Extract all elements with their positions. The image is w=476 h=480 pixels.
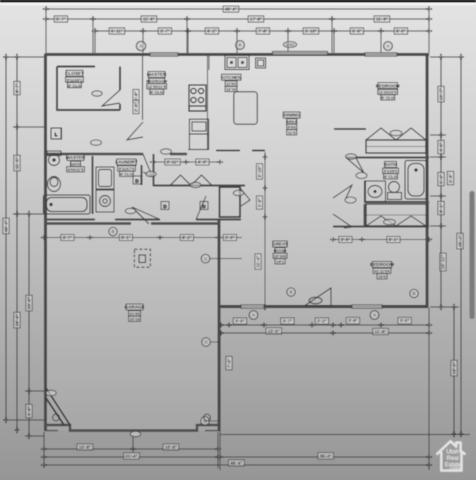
svg-text:AREA: AREA [286, 119, 297, 124]
east bath walls [333, 158, 429, 227]
room label CLOSET [65, 70, 84, 88]
label 46&#8217;-4&#8221; [3, 218, 9, 234]
svg-text:9’-1”: 9’-1” [121, 235, 131, 240]
east bath vanity [365, 181, 386, 202]
dimension ticks [42, 17, 432, 22]
svg-text:5’-6”: 5’-6” [27, 406, 32, 416]
master bath door swing [143, 154, 152, 176]
label 6&#8217;-2&#8221; [205, 28, 218, 34]
svg-text:19’-5”: 19’-5” [452, 362, 457, 374]
hall closet door swing [240, 188, 250, 206]
window east bedroom [365, 53, 397, 56]
svg-text:3’-7”: 3’-7” [63, 235, 73, 240]
dimension ticks [40, 455, 221, 460]
east closet door oval [390, 130, 402, 135]
label 11&#8217;-9&#8221; [374, 16, 390, 22]
svg-text:3’-0”: 3’-0” [400, 318, 410, 323]
svg-text:3’-7”: 3’-7” [283, 319, 293, 324]
svg-text:D: D [135, 179, 138, 184]
overall width dimension line [46, 8, 429, 10]
svg-text:5’-8”: 5’-8” [448, 173, 453, 183]
dimension ticks [4, 53, 9, 423]
label 5&#8217;-6&#8221; [26, 404, 32, 417]
right patio dim line [453, 307, 455, 434]
left inner dimension line [16, 57, 18, 430]
svg-text:7’-0”: 7’-0” [227, 358, 232, 368]
washer and dryer [96, 167, 114, 212]
top black bar [0, 0, 476, 3]
dimension ticks [217, 323, 432, 328]
label 3&#8217;-9&#8221; [346, 318, 359, 324]
svg-text:B: B [289, 290, 292, 295]
EN box [51, 128, 61, 139]
svg-text:11’-5”: 11’-5” [15, 157, 20, 169]
svg-text:11’-9”: 11’-9” [376, 17, 388, 22]
label 2&#8217;-8&#8221; [133, 100, 139, 113]
dimension ticks [42, 7, 432, 12]
window great room bottom [241, 305, 264, 308]
svg-text:10’0: 10’0 [378, 274, 387, 279]
svg-text:B: B [238, 43, 241, 48]
room label KITCHEN [221, 74, 242, 92]
label 5&#8217;-8&#8221; [447, 171, 453, 184]
svg-text:12’5X11’5: 12’5X11’5 [148, 84, 167, 89]
bedroom2 dimension row [333, 239, 429, 241]
svg-text:5’-7”: 5’-7” [56, 17, 66, 22]
svg-text:3’-7”: 3’-7” [160, 29, 170, 34]
room label DINING [283, 112, 300, 135]
schedule symbol A [370, 311, 379, 320]
kitchen sink [225, 56, 249, 70]
room label BEDROOM east [376, 83, 400, 101]
svg-text:8’ CLG: 8’ CLG [120, 172, 133, 177]
svg-text:D: D [163, 204, 166, 209]
svg-text:BEDROOM: BEDROOM [376, 83, 400, 88]
svg-text:6’-2”: 6’-2” [207, 29, 217, 34]
bedroom2 door swing [333, 214, 352, 228]
svg-text:6’-0”: 6’-0” [396, 29, 406, 34]
label 3&#8217;-8&#8221; [339, 236, 352, 242]
master bath tub [44, 195, 91, 214]
great room entry door swing [196, 196, 206, 220]
svg-text:21’-4”: 21’-4” [125, 454, 137, 459]
label 11&#8217;-5&#8221; [14, 155, 20, 171]
outer left wall [44, 54, 47, 431]
window bedroom2 bottom [352, 305, 382, 308]
svg-text:3’-8”: 3’-8” [341, 237, 351, 242]
schedule symbol A [249, 311, 258, 320]
svg-text:8’-1”: 8’-1” [439, 203, 444, 213]
label 1&#8217;-6&#8221; [256, 196, 262, 209]
svg-text:35’-2”: 35’-2” [320, 453, 332, 458]
svg-text:#2 11’0X: #2 11’0X [374, 269, 390, 274]
label 8&#8217;-1&#8221; [438, 201, 444, 214]
right extension lines [430, 57, 464, 307]
svg-text:22’10: 22’10 [130, 317, 141, 322]
room label MASTER BATH [66, 155, 86, 173]
label 21&#8217;-4&#8221; [124, 453, 140, 459]
svg-text:LAUNDRY: LAUNDRY [115, 160, 137, 165]
svg-text:10’-7”: 10’-7” [439, 88, 444, 100]
svg-text:8’-2”: 8’-2” [182, 235, 192, 240]
bottom extension lines [44, 308, 470, 470]
svg-text:2’-8”: 2’-8” [134, 102, 139, 112]
svg-text:10’-11”: 10’-11” [441, 255, 446, 269]
dimension ticks [149, 160, 223, 165]
wall [332, 214, 334, 307]
schedule symbol G [201, 254, 210, 263]
svg-text:14’1: 14’1 [276, 259, 285, 264]
master bath toilet [47, 151, 61, 166]
label 3&#8217;-0&#8221; [398, 318, 411, 324]
overall width dimension line bottom [44, 464, 429, 466]
bedroom2 closet [366, 204, 428, 226]
label 2&#8217;-0&#8221; [223, 234, 236, 240]
outer right wall [426, 54, 429, 308]
label 4&#8217;-3&#8221; [196, 159, 209, 165]
svg-text:8’ CLG: 8’ CLG [68, 83, 81, 88]
svg-text:6’-1”: 6’-1” [389, 237, 399, 242]
left extension lines [3, 57, 44, 436]
svg-text:5’11X7’0: 5’11X7’0 [119, 166, 136, 171]
svg-text:5’-11”: 5’-11” [111, 29, 123, 34]
east bedroom closet doors [366, 128, 426, 140]
svg-text:21’4X: 21’4X [129, 311, 140, 316]
third row dimension line [95, 30, 429, 32]
master suite dividing wall [44, 153, 187, 155]
dimension ticks [40, 463, 432, 468]
right overall dim line [460, 57, 462, 434]
master bedroom door swing [127, 122, 143, 140]
svg-text:4’-0”: 4’-0” [439, 142, 444, 152]
label 8&#8217;-7&#8221; [14, 81, 20, 94]
garage door dimension line [44, 448, 218, 450]
svg-text:2’-0”: 2’-0” [225, 235, 235, 240]
svg-text:L: L [55, 132, 58, 137]
garage entry door swing [132, 207, 160, 224]
dimension ticks [452, 303, 457, 437]
dimension ticks [329, 237, 432, 242]
svg-text:3’-10”: 3’-10” [305, 29, 317, 34]
svg-text:10’-8”: 10’-8” [165, 445, 177, 450]
svg-text:9050: 9050 [286, 43, 294, 47]
svg-text:MASTER: MASTER [147, 72, 167, 77]
garage post circles [53, 414, 211, 421]
label 3&#8217;-7&#8221; [281, 318, 294, 324]
second row below great room [221, 332, 429, 334]
label 10&#8217;-7&#8221; [438, 86, 444, 102]
garage top dimension row [44, 237, 242, 239]
svg-text:5’-4”: 5’-4” [439, 174, 444, 184]
svg-text:3’-9”: 3’-9” [348, 318, 358, 323]
row below great room [221, 324, 429, 326]
dimension ticks [217, 331, 432, 336]
hall closet door oval [233, 190, 243, 195]
svg-text:11’-9”: 11’-9” [375, 329, 387, 334]
shower niche box [51, 128, 62, 139]
svg-text:3’-0”: 3’-0” [235, 319, 245, 324]
svg-text:17’-8”: 17’-8” [250, 17, 262, 22]
attic access dashed box [134, 249, 150, 267]
svg-text:11’6X: 11’6X [226, 81, 237, 86]
schedule symbol G [201, 417, 210, 426]
svg-text:.com: .com [448, 466, 460, 472]
stove [189, 85, 206, 111]
patio width dimension line [220, 456, 429, 458]
great room vertical dim line [264, 152, 266, 307]
svg-text:3’-10”: 3’-10” [257, 165, 262, 177]
room label GARAGE [125, 304, 145, 322]
overall height dimension line left [5, 57, 7, 420]
label 6&#8217;-1&#8221; [387, 236, 400, 242]
label 19&#8217;-5&#8221; [451, 360, 457, 376]
svg-text:5’-9”: 5’-9” [352, 29, 362, 34]
kitchen counters [188, 56, 209, 150]
svg-text:8’ CLG: 8’ CLG [381, 95, 394, 100]
bedroom2 door oval [345, 197, 356, 203]
svg-text:8’ CLG: 8’ CLG [150, 90, 163, 95]
label 6&#8217;-0&#8221; [394, 28, 407, 34]
label 13&#8217;-5&#8221; [266, 328, 282, 334]
dimension ticks [439, 53, 444, 310]
D box 2 [200, 202, 208, 210]
svg-text:CLOSET: CLOSET [65, 71, 84, 76]
svg-text:B: B [412, 291, 415, 296]
label 46&#8217;-4&#8221; [229, 460, 245, 466]
right dim line inner [440, 57, 442, 307]
hall2 door oval [190, 182, 201, 187]
garage entry door oval [125, 208, 135, 213]
top extension lines [46, 6, 429, 53]
svg-text:46’-4”: 46’-4” [225, 7, 237, 12]
east bath toilet [388, 182, 402, 200]
bedroom2 closet doors [366, 216, 426, 226]
wall [332, 54, 334, 198]
east bedroom closet shelf [334, 129, 426, 153]
label 17&#8217;-8&#8221; [248, 16, 264, 22]
room label GREAT ROOM [272, 241, 288, 264]
master bath and laundry walls [44, 154, 245, 220]
svg-text:8’0X11’5: 8’0X11’5 [68, 167, 85, 172]
label 46&#8217;-4&#8221; [223, 6, 239, 12]
label 8&#8217;-2&#8221; [180, 234, 193, 240]
building footprint light overlay [46, 55, 427, 430]
label 4&#8217;-0&#8221; [438, 140, 444, 153]
window dining [273, 52, 328, 55]
schedule symbol B [236, 41, 245, 50]
master bath sink [48, 177, 61, 192]
schedule symbol B [410, 289, 418, 297]
svg-text:4’-3”: 4’-3” [198, 160, 208, 165]
dimension ticks [40, 447, 221, 452]
label 5&#8217;-4&#8221; [438, 172, 444, 185]
svg-text:5’11X9’1: 5’11X9’1 [67, 77, 84, 82]
window master bedroom [150, 53, 178, 56]
label 9&#8217;-1&#8221; [119, 234, 132, 240]
east bedroom door oval [346, 154, 357, 159]
room label LAUNDRY [115, 159, 137, 177]
G symbol leader line 2 [210, 341, 220, 343]
east bath door swing [333, 185, 352, 198]
room label BEDROOM 2 [370, 262, 394, 280]
dishwasher [256, 58, 266, 68]
label 26&#8217;-6&#8221; [14, 312, 20, 328]
wall [240, 150, 242, 188]
svg-text:11’-6”: 11’-6” [143, 17, 155, 22]
svg-text:26’-6”: 26’-6” [15, 314, 20, 326]
label 35&#8217;-2&#8221; [318, 453, 334, 459]
laundry double doors [170, 175, 212, 186]
label 3&#8217;-7&#8221; [61, 234, 74, 240]
label 3&#8217;-11&#8221; [165, 159, 181, 165]
laundry door oval [146, 171, 156, 176]
bedroom2 closet door oval [384, 219, 396, 224]
left garage dimension line [28, 214, 30, 436]
closet room walls [57, 67, 120, 111]
svg-text:7’-8”: 7’-8” [258, 29, 268, 34]
label 5&#8217;-9&#8221; [350, 28, 363, 34]
garage side door oval [46, 390, 56, 396]
svg-text:46’-4”: 46’-4” [230, 461, 242, 466]
svg-text:13’-5”: 13’-5” [268, 328, 280, 333]
hall closet walls [216, 151, 265, 218]
fireplace [305, 288, 331, 306]
svg-text:BATH: BATH [70, 162, 81, 167]
svg-text:GREAT: GREAT [272, 242, 288, 247]
dimension ticks [459, 53, 464, 437]
svg-text:46’-4”: 46’-4” [4, 220, 9, 232]
hall door oval [161, 149, 172, 154]
svg-text:BATH: BATH [384, 162, 397, 167]
svg-text:B: B [111, 229, 114, 234]
G symbol leader line [210, 258, 242, 260]
wall [186, 54, 188, 150]
pantry cabinet [189, 119, 208, 149]
dimension ticks [263, 153, 268, 310]
svg-text:6’-8”: 6’-8” [134, 91, 139, 101]
east bedroom door swing [346, 158, 364, 174]
label 3&#8217;-0&#8221; [233, 318, 246, 324]
garage bottom wall [45, 425, 219, 431]
schedule symbol B [109, 227, 117, 235]
svg-text:MASTER: MASTER [66, 155, 86, 160]
dimension ticks [40, 235, 221, 240]
garage width dimension line [44, 456, 218, 458]
svg-text:ROOM: ROOM [274, 248, 287, 253]
closet door oval [92, 91, 102, 96]
svg-text:11’6: 11’6 [288, 130, 296, 135]
D box 1 [161, 202, 169, 210]
label 5&#8217;-7&#8221; [54, 16, 67, 22]
garage corner diagonal wall [46, 388, 70, 425]
label 11&#8217;-4&#8221; [255, 254, 261, 270]
garage door oval [130, 431, 140, 436]
label 11&#8217;-6&#8221; [141, 16, 157, 22]
dimension ticks [91, 29, 432, 34]
schedule symbol B [287, 288, 295, 296]
white strip under bar [0, 3, 476, 5]
svg-text:46’-4”: 46’-4” [458, 235, 463, 247]
closet door swing [102, 90, 120, 106]
schedule symbol G [202, 338, 211, 347]
svg-text:3’-11”: 3’-11” [167, 160, 179, 165]
svg-text:11’-4”: 11’-4” [256, 256, 261, 268]
schedule symbol A [136, 41, 145, 50]
svg-text:KITCHEN: KITCHEN [221, 75, 242, 80]
svg-text:11’3X10’0: 11’3X10’0 [379, 90, 398, 95]
svg-text:G: G [204, 256, 208, 261]
wall [142, 54, 144, 120]
svg-text:9’1X5’0: 9’1X5’0 [384, 169, 399, 174]
label 46&#8217;-4&#8221; [457, 233, 463, 249]
label 10&#8217;-11&#8221; [440, 253, 446, 271]
svg-text:D: D [202, 204, 205, 209]
svg-text:9’0X: 9’0X [288, 125, 297, 130]
room label MASTER BEDROOM [146, 72, 168, 95]
wall [240, 218, 242, 307]
garage right wall [218, 220, 221, 431]
svg-text:15’10X: 15’10X [274, 254, 287, 259]
svg-text:BEDROOM: BEDROOM [370, 262, 394, 267]
svg-text:8’ CLG: 8’ CLG [384, 174, 397, 179]
east bath door oval [356, 173, 367, 179]
bottom wall of great room and bedroom2 [220, 305, 428, 308]
label 23&#8217;-0&#8221; [26, 295, 32, 311]
dimension ticks [216, 455, 432, 460]
label 3&#8217;-10&#8221; [256, 164, 262, 179]
label 11&#8217;-9&#8221; [373, 328, 389, 334]
label 7&#8217;-8&#8221; [256, 28, 269, 34]
watermark Utah Real Estate logo [437, 441, 464, 472]
room label BATH [383, 162, 399, 180]
laundry dimension row [153, 161, 220, 163]
label 2&#8217;-2&#8221; [315, 318, 328, 324]
svg-text:DINING: DINING [284, 113, 301, 118]
label 10&#8217;-8&#8221; [163, 444, 179, 450]
svg-text:12’10: 12’10 [226, 87, 237, 92]
label 3&#8217;-10&#8221; [303, 28, 319, 34]
scrollbar thumb [470, 191, 475, 319]
svg-text:8’-7”: 8’-7” [15, 83, 20, 93]
svg-text:23’-0”: 23’-0” [27, 297, 32, 309]
east bath tub [405, 161, 427, 200]
kitchen island [234, 92, 257, 125]
svg-text:1’-6”: 1’-6” [257, 198, 262, 208]
svg-text:GARAGE: GARAGE [125, 305, 145, 310]
svg-text:BEDROOM: BEDROOM [146, 79, 168, 84]
label 7&#8217;-0&#8221; [226, 356, 232, 369]
svg-text:10’-8”: 10’-8” [79, 445, 91, 450]
outer top wall [45, 53, 429, 56]
window marker oval [284, 42, 297, 48]
D box 3 [133, 176, 141, 184]
label 5&#8217;-11&#8221; [109, 28, 125, 34]
dimension ticks [15, 53, 20, 433]
master bedroom door oval [91, 140, 102, 145]
label 6&#8217;-8&#8221; [133, 89, 139, 102]
G symbol leader line 3 [209, 420, 219, 422]
dimension ticks [27, 210, 32, 439]
garage top wall [44, 222, 220, 224]
label 3&#8217;-7&#8221; [158, 28, 171, 34]
svg-text:G: G [204, 340, 208, 345]
svg-text:2’-2”: 2’-2” [317, 319, 327, 324]
schedule symbol A [384, 42, 393, 51]
label 10&#8217;-8&#8221; [77, 444, 93, 450]
second row dimension line [46, 18, 429, 20]
